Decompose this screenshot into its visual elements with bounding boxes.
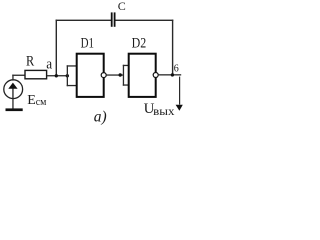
figure caption a) [94, 108, 107, 125]
svg-text:R: R [26, 53, 34, 69]
wire top-right horizontal from capacitor to right corner [115, 20, 173, 21]
ground bar [6, 108, 23, 111]
junction dot node a [55, 74, 58, 77]
svg-text:C: C [118, 0, 126, 13]
wire resistor to node a branch [47, 75, 68, 76]
D2 output inversion bubble [153, 73, 158, 78]
wire D1 output to D2 input [106, 74, 124, 75]
svg-text:D2: D2 [132, 35, 147, 51]
svg-text:а): а) [94, 108, 107, 125]
pin number 6 [174, 64, 179, 75]
label D2 [132, 35, 147, 51]
svg-text:см: см [36, 96, 47, 108]
junction dot D1 input branch [66, 74, 69, 77]
junction dot between D1 and D2 [119, 73, 122, 76]
logic gate D1 body [77, 54, 104, 97]
label D1 [81, 35, 94, 51]
wire left feedback vertical (node a to capacitor) [56, 20, 57, 77]
node a label [46, 57, 52, 73]
capacitor label C [118, 0, 126, 13]
D1 output inversion bubble [101, 73, 106, 78]
junction dot output node [171, 73, 174, 76]
svg-text:a: a [46, 57, 52, 73]
output arrow U_vyh down [176, 77, 183, 111]
wire D1 input branch (two tied inputs) [67, 65, 77, 86]
wire D2 output to output terminal [158, 74, 181, 75]
wire top-left horizontal from feedback corner to capacitor [56, 20, 112, 21]
wire source bottom to ground [12, 98, 13, 108]
label E_CM [27, 93, 46, 108]
wire source top to resistor [12, 75, 25, 81]
label U_vyh [144, 101, 175, 118]
svg-text:E: E [27, 93, 36, 108]
resistor R body [25, 70, 47, 78]
logic gate D2 body [129, 54, 156, 97]
svg-text:D1: D1 [81, 35, 94, 51]
wire D2 input branch (two tied inputs) [123, 65, 129, 86]
wire right feedback vertical (capacitor to output) [172, 20, 173, 76]
capacitor C plates [111, 12, 116, 26]
resistor label R [26, 53, 34, 69]
source E_CM circle with current arrow [4, 80, 23, 99]
svg-text:вых: вых [153, 104, 174, 118]
svg-text:6: 6 [174, 64, 179, 75]
